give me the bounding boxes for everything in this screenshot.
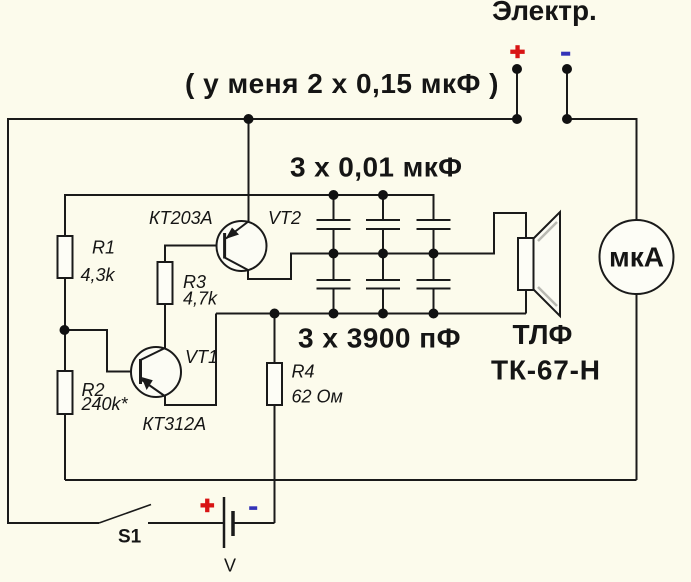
wire VT2 collector to middle bus <box>248 254 334 280</box>
resistor R1 <box>58 236 73 278</box>
node terminal plus bottom <box>512 114 522 124</box>
svg-text:мкА: мкА <box>609 242 664 273</box>
battery V plus plate <box>223 497 226 548</box>
wire battery minus to riser <box>234 522 275 524</box>
capacitor C4 (bottom row, 3900 пФ) <box>317 254 351 314</box>
label battery plus (red) <box>201 499 215 513</box>
wire VT1 collector riser to R3 <box>164 304 166 348</box>
svg-text:КТ312А: КТ312А <box>143 414 207 434</box>
wire top bus <box>8 118 517 120</box>
node bottom bus C4 <box>329 309 339 319</box>
battery V minus plate <box>231 511 235 536</box>
capacitor C1 (top row, 0,01 мкФ) <box>317 195 351 254</box>
svg-text:V: V <box>224 556 236 576</box>
resistor R3 <box>158 262 173 304</box>
speaker ТЛФ ТК-67-Н <box>518 212 560 316</box>
wire inner top bus <box>65 195 434 220</box>
node top bus C1 <box>329 190 339 200</box>
svg-text:ТЛФ: ТЛФ <box>513 319 573 350</box>
capacitor C5 (bottom row, 3900 пФ) <box>366 254 400 314</box>
svg-text:КТ203А: КТ203А <box>149 208 213 228</box>
node middle bus C2 <box>378 249 388 259</box>
node bottom bus C5 <box>378 309 388 319</box>
wire meter bottom <box>636 294 638 480</box>
meter мкА <box>600 220 674 294</box>
wire bottom bus <box>65 479 637 481</box>
svg-text:( у меня 2 х 0,15 мкФ ): ( у меня 2 х 0,15 мкФ ) <box>185 68 499 99</box>
node R1/R2 divider junction <box>60 325 70 335</box>
wire speaker bottom to bus <box>525 290 527 314</box>
svg-text:S1: S1 <box>118 527 142 548</box>
label plus terminal (red) <box>510 45 524 58</box>
svg-text:ТК-67-Н: ТК-67-Н <box>491 355 601 386</box>
node terminal minus bottom <box>562 114 572 124</box>
svg-text:VT2: VT2 <box>268 208 301 228</box>
capacitor C6 (bottom row, 3900 пФ) <box>417 254 451 314</box>
node middle bus C1 <box>329 249 339 259</box>
node middle bus C3 <box>429 249 439 259</box>
capacitor C3 (top row, 0,01 мкФ) <box>417 195 451 254</box>
wire R3 top to VT2 base <box>165 246 223 263</box>
transistor VT2 (КТ203А) <box>217 221 267 271</box>
resistor R4 <box>267 363 282 405</box>
svg-text:4,3k: 4,3k <box>81 265 116 285</box>
svg-text:62 Ом: 62 Ом <box>292 387 343 407</box>
node top bus C2 <box>378 190 388 200</box>
svg-text:R1: R1 <box>92 238 115 258</box>
wire meter top feed <box>567 119 637 220</box>
node bottom bus C6 <box>429 309 439 319</box>
node bottom bus R4 <box>270 309 280 319</box>
wire bottom capacitor bus <box>216 313 526 315</box>
wire bottom left to switch <box>7 522 99 524</box>
wire VT1 base network <box>64 330 139 372</box>
svg-text:Электр.: Электр. <box>492 0 597 26</box>
transistor VT1 (КТ312А) <box>131 347 181 397</box>
wire VT2 emitter riser <box>248 119 250 223</box>
svg-text:3 х 3900 пФ: 3 х 3900 пФ <box>298 323 461 354</box>
wire terminal plus <box>516 69 518 119</box>
wire inner left vertical <box>64 194 66 480</box>
svg-text:VT1: VT1 <box>185 347 218 367</box>
wire switch to battery <box>148 522 223 524</box>
capacitor C2 (top row, 0,01 мкФ) <box>366 195 400 254</box>
wire outer left vertical <box>7 118 9 523</box>
wire R4 top lead <box>274 314 276 364</box>
svg-text:240k*: 240k* <box>81 394 129 414</box>
svg-text:R4: R4 <box>292 362 315 382</box>
label battery minus (blue) <box>249 506 257 510</box>
wire middle capacitor bus to speaker top <box>334 213 527 254</box>
resistor R2 <box>58 371 73 414</box>
label minus terminal (blue) <box>561 52 570 56</box>
node terminal minus top <box>562 64 572 74</box>
svg-text:4,7k: 4,7k <box>183 289 218 309</box>
node terminal plus top <box>512 64 522 74</box>
switch S1 blade <box>99 505 151 524</box>
wire terminal minus <box>566 69 568 119</box>
wire VT1 emitter to bottom bus <box>165 314 216 406</box>
node top bus / VT2 emitter junction <box>244 114 254 124</box>
svg-text:3 х 0,01 мкФ: 3 х 0,01 мкФ <box>290 152 462 183</box>
wire riser battery to R4 <box>274 405 276 523</box>
